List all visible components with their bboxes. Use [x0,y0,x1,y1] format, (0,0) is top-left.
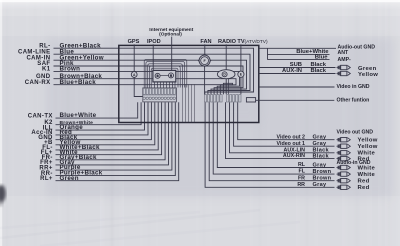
svg-text:Black: Black [313,153,330,159]
svg-text:RADIO: RADIO [218,39,237,45]
svg-text:AUX-RIN: AUX-RIN [283,153,305,159]
svg-text:RR: RR [297,182,305,188]
svg-text:GPS: GPS [128,39,140,45]
svg-text:Other funtion: Other funtion [337,98,370,104]
svg-text:RL+: RL+ [40,176,53,182]
svg-text:Video out 1: Video out 1 [277,141,306,147]
svg-text:Audio-in GND: Audio-in GND [337,160,371,166]
svg-text:Green: Green [60,175,79,182]
svg-text:White: White [358,172,376,178]
svg-text:Brown: Brown [313,176,332,182]
svg-text:RL: RL [298,162,306,168]
svg-text:Gray: Gray [313,182,328,188]
svg-text:(Optional): (Optional) [159,32,182,38]
svg-text:Video out 2: Video out 2 [277,134,306,140]
svg-text:CAN-RX: CAN-RX [25,80,51,86]
svg-text:Video in GND: Video in GND [337,84,370,90]
svg-text:Brown: Brown [313,169,332,175]
svg-text:Video out GND: Video out GND [337,130,374,136]
svg-text:Gray: Gray [313,135,328,141]
svg-text:Red: Red [358,185,370,191]
svg-text:Brown: Brown [60,66,81,73]
svg-text:ANT: ANT [338,50,349,56]
svg-text:Yellow: Yellow [358,138,378,144]
svg-text:AMP-: AMP- [338,57,352,63]
svg-text:FAN: FAN [200,39,211,45]
svg-text:(ATV/DTV): (ATV/DTV) [245,39,268,45]
svg-text:Red: Red [358,179,370,185]
svg-text:IPOD: IPOD [147,39,161,45]
svg-text:Blue+Black: Blue+Black [60,79,97,86]
svg-text:FR: FR [298,175,305,181]
svg-text:Gray: Gray [313,141,328,147]
svg-text:Gray: Gray [313,162,328,168]
svg-text:FL: FL [299,169,306,175]
svg-text:Blue+White: Blue+White [60,112,97,119]
svg-text:Blue: Blue [315,55,328,61]
svg-text:Yellow: Yellow [358,144,378,150]
svg-text:Black: Black [311,68,327,74]
svg-text:AUX-IN: AUX-IN [282,68,302,74]
svg-text:White: White [358,165,376,171]
svg-text:CAN-TX: CAN-TX [28,113,53,119]
svg-text:Yellow: Yellow [358,72,378,78]
svg-text:K1: K1 [42,67,51,73]
